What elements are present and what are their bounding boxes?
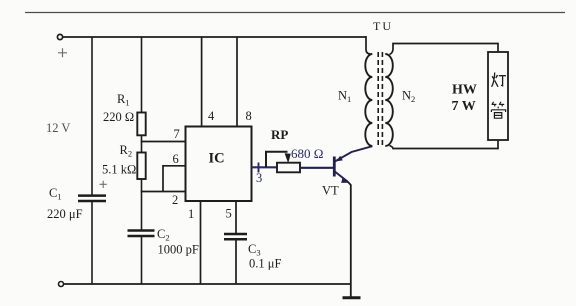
- svg-text:VT: VT: [322, 184, 339, 198]
- transformer core: [378, 52, 382, 148]
- svg-text:C3: C3: [248, 242, 261, 258]
- wire pin 4: [201, 37, 203, 127]
- wire pin 3: [252, 166, 278, 168]
- terminal + (supply positive): [57, 34, 67, 57]
- glyph guan (tube): [491, 102, 505, 118]
- wire RP to base: [300, 167, 334, 169]
- svg-text:220 μF: 220 μF: [47, 207, 83, 221]
- svg-text:RP: RP: [271, 127, 288, 142]
- winding N1: [338, 54, 372, 146]
- resistor R1: [103, 92, 146, 135]
- svg-text:R2: R2: [120, 143, 133, 159]
- wire C2 to bottom rail: [141, 236, 143, 284]
- wire pin 7: [141, 141, 186, 143]
- lamp tube (fluorescent): [488, 52, 508, 140]
- svg-text:5: 5: [226, 207, 232, 221]
- wire R1 to R2: [141, 135, 143, 152]
- svg-text:6: 6: [173, 152, 179, 166]
- wire pin 8: [236, 37, 238, 127]
- wire C1 branch upper: [91, 37, 93, 195]
- svg-text:C2: C2: [157, 227, 170, 243]
- svg-text:12 V: 12 V: [46, 121, 70, 135]
- wire collector to N1 bottom: [335, 146, 373, 161]
- svg-text:680 Ω: 680 Ω: [291, 146, 323, 161]
- svg-text:4: 4: [208, 109, 215, 123]
- wire R2 down to C2: [141, 179, 143, 231]
- winding N2: [385, 54, 415, 146]
- svg-text:TU: TU: [373, 19, 393, 33]
- wire pin 6 stub: [163, 165, 186, 167]
- svg-text:IC: IC: [209, 151, 225, 167]
- svg-text:1: 1: [188, 207, 194, 221]
- resistor R2: [102, 143, 146, 179]
- wire C3 to bottom rail: [235, 239, 237, 284]
- wire pin 5: [235, 201, 237, 234]
- svg-text:8: 8: [246, 109, 252, 123]
- transistor VT: [322, 157, 349, 198]
- wire N2 bottom to lamp: [390, 140, 499, 149]
- svg-text:7 W: 7 W: [452, 99, 476, 114]
- label HW 7 W: [452, 83, 477, 115]
- svg-text:5.1 kΩ: 5.1 kΩ: [102, 163, 136, 177]
- wire emitter down: [348, 182, 351, 297]
- capacitor C3: [224, 234, 281, 271]
- svg-text:1000 pF: 1000 pF: [158, 243, 199, 257]
- wire pin 1: [200, 201, 202, 284]
- svg-text:C1: C1: [49, 186, 62, 202]
- wire N2 top to lamp: [390, 44, 499, 55]
- svg-text:HW: HW: [452, 83, 477, 98]
- IC: [186, 127, 252, 202]
- wire pin 2: [141, 191, 186, 193]
- potentiometer RP: [266, 127, 323, 172]
- ground: [343, 296, 361, 299]
- capacitor C1: [47, 181, 107, 221]
- wire bottom rail: [64, 283, 352, 285]
- svg-text:7: 7: [174, 127, 180, 141]
- svg-text:2: 2: [172, 193, 178, 207]
- wire rail drop to N1: [366, 36, 371, 54]
- glyph deng (lamp): [492, 73, 506, 87]
- svg-text:N1: N1: [338, 89, 351, 105]
- svg-text:N2: N2: [402, 89, 415, 105]
- wire R branch from rail: [141, 37, 143, 113]
- pin 3 tick: [258, 163, 260, 173]
- terminal - (supply negative): [59, 282, 64, 287]
- wire C1 branch lower: [91, 201, 93, 284]
- svg-text:R1: R1: [117, 92, 130, 108]
- svg-text:3: 3: [256, 171, 262, 185]
- wire top rail: [63, 36, 366, 38]
- svg-text:0.1 μF: 0.1 μF: [249, 257, 281, 271]
- capacitor C2: [128, 227, 199, 257]
- svg-text:220 Ω: 220 Ω: [103, 110, 134, 124]
- wire pin 6 riser: [162, 165, 164, 192]
